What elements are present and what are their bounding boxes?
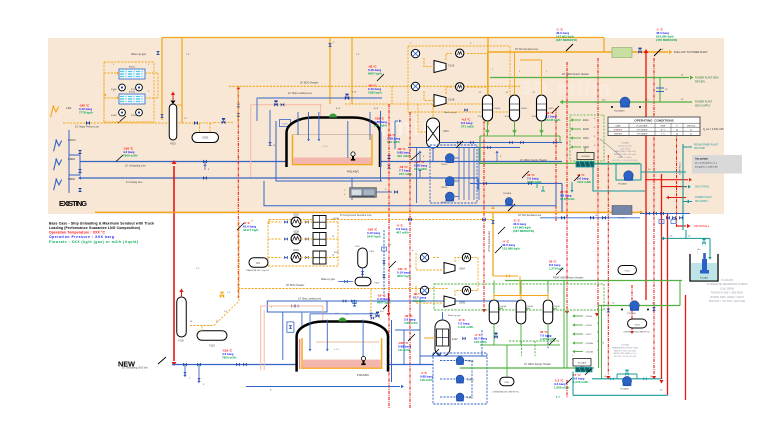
svg-text:RATED FLOW = 358 M3/H: RATED FLOW = 358 M3/H (711, 291, 743, 295)
svg-text:P103A: P103A (467, 360, 474, 363)
svg-text:377,748 A/H: 377,748 A/H (637, 128, 648, 131)
svg-text:20' BOG Header: 20' BOG Header (286, 284, 305, 287)
svg-text:SW OUTFALL: SW OUTFALL (695, 186, 710, 189)
svg-text:E10C: E10C (555, 306, 561, 308)
svg-text:VS05: VS05 (202, 137, 209, 140)
svg-text:4'x3: 4'x3 (380, 311, 383, 313)
svg-text:E001A/B: E001A/B (581, 155, 590, 158)
svg-text:POWER PLANT WEG: POWER PLANT WEG (695, 77, 719, 80)
svg-text:P105A/B: P105A/B (620, 388, 629, 391)
svg-text:10' WEG Supply Header: 10' WEG Supply Header (520, 159, 547, 162)
svg-text:1112 m3/h: 1112 m3/h (577, 180, 591, 184)
svg-text:(187 MMSCFD): (187 MMSCFD) (556, 38, 577, 42)
svg-text:VS03: VS03 (634, 324, 640, 326)
svg-text:P101A/B/C: P101A/B/C (357, 374, 370, 377)
svg-text:10' Vapor Return Line: 10' Vapor Return Line (75, 126, 100, 129)
svg-text:RATED DIFF. HEAD = 37 m: RATED DIFF. HEAD = 37 m (613, 352, 637, 355)
svg-text:467 m3/h: 467 m3/h (396, 231, 409, 235)
svg-text:LP2: LP2 (256, 263, 261, 265)
svg-text:P104A/B: P104A/B (700, 277, 709, 280)
svg-text:Make-up gas: Make-up gas (321, 278, 336, 281)
svg-text:V103: V103 (374, 283, 380, 285)
svg-text:RATED FLOW = 286 m3/h: RATED FLOW = 286 m3/h (614, 153, 636, 156)
svg-text:C04B: C04B (583, 147, 589, 149)
svg-text:Operation Pressure : XXX barg: Operation Pressure : XXX barg (49, 235, 114, 239)
svg-text:14'x8: 14'x8 (532, 116, 536, 118)
svg-text:E10B: E10B (528, 306, 534, 308)
svg-text:4'x3: 4'x3 (345, 314, 348, 316)
svg-text:Q_sw = 3,300 m3/h: Q_sw = 3,300 m3/h (703, 128, 724, 131)
svg-text:5 °C: 5 °C (661, 133, 665, 135)
svg-text:14' Ship Loading line: 14' Ship Loading line (298, 298, 322, 301)
svg-text:E01A: E01A (495, 107, 501, 110)
svg-text:E002a: E002a (129, 67, 136, 69)
svg-text:VS02: VS02 (624, 271, 630, 273)
svg-text:118 m3/h: 118 m3/h (420, 378, 433, 382)
svg-text:SW OUTFALL: SW OUTFALL (694, 225, 710, 228)
svg-text:20' WEG Return Header: 20' WEG Return Header (562, 73, 589, 76)
svg-text:C101dB: C101dB (585, 352, 593, 354)
svg-text:C04A: C04A (459, 268, 465, 271)
svg-text:SW PUMP: SW PUMP (694, 148, 705, 150)
svg-text:OPERATING CONDITIONS: OPERATING CONDITIONS (634, 119, 673, 123)
svg-text:P001c: P001c (441, 202, 448, 204)
svg-text:2'x1': 2'x1' (388, 244, 392, 246)
svg-text:1280 kg/h: 1280 kg/h (368, 91, 382, 95)
svg-text:34477 kg/h: 34477 kg/h (243, 228, 259, 232)
svg-text:MOTOR = 737 KW ( 1100 kW): MOTOR = 737 KW ( 1100 kW) (709, 299, 745, 303)
svg-text:HEAD TEMP = 286 m3/h: HEAD TEMP = 286 m3/h (615, 150, 636, 153)
svg-text:C02A: C02A (293, 214, 299, 217)
svg-text:F 001: F 001 (322, 146, 328, 148)
svg-text:E002b: E002b (129, 92, 136, 94)
svg-text:K005A: K005A (131, 88, 137, 91)
svg-text:F100: F100 (178, 340, 184, 343)
svg-text:100 K: 100 K (282, 124, 288, 126)
svg-text:FLOW RATE: FLOW RATE (637, 124, 649, 127)
svg-text:16' NG Sendout Line: 16' NG Sendout Line (488, 230, 491, 252)
svg-text:K004B: K004B (111, 115, 117, 117)
svg-text:E102: E102 (452, 338, 458, 341)
svg-text:E101A/B: E101A/B (578, 361, 587, 364)
svg-text:C101Ab: C101Ab (585, 342, 594, 345)
svg-text:7778 kg/h: 7778 kg/h (79, 111, 93, 115)
svg-text:C101B: C101B (585, 325, 592, 327)
svg-text:L102: L102 (66, 107, 72, 110)
svg-text:F102: F102 (209, 345, 215, 348)
svg-text:TEMP: TEMP (660, 125, 666, 127)
svg-text:1.5': 1.5' (186, 54, 190, 56)
svg-text:6' Cooling Line: 6' Cooling Line (126, 181, 143, 184)
svg-text:P006A/B: P006A/B (503, 192, 512, 195)
svg-text:111 m3/h: 111 m3/h (398, 348, 411, 352)
svg-text:Water up-gas: Water up-gas (131, 53, 147, 56)
svg-text:RATED DIFF. HEAD = 99 M: RATED DIFF. HEAD = 99 M (710, 295, 744, 299)
svg-text:1,046 m3/h: 1,046 m3/h (573, 380, 589, 384)
svg-text:10' WEG Supply Header: 10' WEG Supply Header (524, 363, 551, 366)
svg-text:4'x3': 4'x3' (374, 108, 379, 110)
svg-text:V101: V101 (369, 251, 375, 253)
svg-text:0.88 m3/h: 0.88 m3/h (404, 321, 418, 325)
svg-text:DEMINERALIZED WATER FILL: DEMINERALIZED WATER FILL (624, 331, 651, 334)
svg-text:C02C: C02C (293, 249, 299, 252)
svg-text:5447 kg/h: 5447 kg/h (367, 235, 381, 239)
svg-text:MOTOR = 1 35 kW ( 165 kW): MOTOR = 1 35 kW ( 165 kW) (613, 160, 638, 162)
svg-text:118 m3/h: 118 m3/h (413, 299, 426, 303)
svg-text:(2 @ 100%): (2 @ 100%) (720, 286, 734, 290)
svg-text:P-104A/B: P-104A/B (721, 278, 733, 282)
svg-text:FUEL GAS TO POWER PLANT: FUEL GAS TO POWER PLANT (674, 51, 708, 54)
svg-text:E03C: E03C (334, 252, 340, 254)
svg-text:P001a: P001a (441, 164, 448, 166)
svg-text:Aux pumps: Aux pumps (695, 158, 709, 161)
svg-text:Flowrate : XXX (kg/h (gas) or: Flowrate : XXX (kg/h (gas) or m3/h (liqu… (49, 240, 138, 244)
svg-text:7800 m3/h: 7800 m3/h (123, 154, 138, 158)
svg-text:C03A: C03A (443, 130, 449, 133)
svg-text:VS04: VS04 (504, 382, 510, 384)
svg-text:Despatch pumps: Despatch pumps (618, 144, 632, 147)
svg-text:E03A: E03A (334, 217, 340, 220)
svg-text:ALTERNATE SEAWATER PUMPS: ALTERNATE SEAWATER PUMPS (706, 282, 747, 286)
svg-text:Operation Temperature : XXX °C: Operation Temperature : XXX °C (49, 231, 106, 235)
svg-text:46: 46 (676, 133, 678, 135)
svg-text:7800 m3/h: 7800 m3/h (222, 356, 237, 360)
svg-text:10' Unloading Line: 10' Unloading Line (125, 165, 146, 168)
svg-text:F001A/B/C: F001A/B/C (347, 171, 359, 174)
svg-text:2D = 6 500 gal/min = 4.1: 2D = 6 500 gal/min = 4.1 (695, 163, 718, 165)
svg-text:118 m3/h: 118 m3/h (474, 340, 487, 344)
svg-text:E01C: E01C (549, 108, 555, 110)
svg-text:P103C: P103C (467, 398, 474, 400)
svg-text:Base Case - Ship Unloading & M: Base Case - Ship Unloading & Maximum Sen… (49, 222, 154, 226)
svg-text:P-006A/B: P-006A/B (621, 142, 630, 145)
svg-text:Make-up gas: Make-up gas (448, 315, 462, 317)
svg-text:41: 41 (690, 133, 692, 135)
svg-text:P004A/B: P004A/B (618, 183, 627, 186)
svg-text:HEAD = 1 200 m: HEAD = 1 200 m (618, 156, 633, 159)
svg-text:WEG SUPPLY: WEG SUPPLY (695, 105, 711, 108)
svg-text:60' SW Return: 60' SW Return (679, 162, 682, 175)
svg-text:DEMINERALIZED WATER FILL: DEMINERALIZED WATER FILL (493, 391, 520, 394)
svg-text:20' BOG Header: 20' BOG Header (300, 82, 319, 85)
svg-text:SW SUPPLY: SW SUPPLY (695, 201, 709, 203)
svg-text:1212 m3/h: 1212 m3/h (560, 197, 575, 201)
svg-text:FROM POWER PLANT: FROM POWER PLANT (694, 144, 719, 147)
svg-text:F-101: F-101 (334, 349, 340, 351)
svg-text:Make-up gas: Make-up gas (444, 112, 458, 114)
svg-text:12' Ship Loading Line: 12' Ship Loading Line (288, 92, 313, 95)
svg-text:1,066 m3/h: 1,066 m3/h (554, 386, 570, 390)
svg-text:PERF WEG Return Header: PERF WEG Return Header (553, 277, 584, 280)
svg-text:C101C: C101C (585, 334, 592, 336)
svg-text:4'x3': 4'x3' (336, 108, 341, 110)
svg-text:C04B: C04B (459, 302, 465, 305)
svg-text:246 m3/h: 246 m3/h (374, 124, 387, 128)
svg-text:16' NG Sendout Line: 16' NG Sendout Line (515, 48, 539, 51)
svg-text:133,086 kg/h: 133,086 kg/h (502, 247, 520, 251)
svg-text:20AN/202B F01 Cmp-#01: 20AN/202B F01 Cmp-#01 (246, 269, 270, 272)
svg-text:SUMMER: SUMMER (614, 129, 623, 131)
svg-text:4"x3": 4"x3" (352, 92, 357, 94)
svg-text:K005B: K005B (131, 115, 137, 117)
svg-text:271 m3/h: 271 m3/h (461, 125, 474, 129)
svg-text:6607 kg/h: 6607 kg/h (368, 72, 382, 76)
svg-text:E02B: E02B (583, 129, 589, 131)
svg-text:RETURN: RETURN (695, 81, 705, 84)
svg-text:377,748 A/H: 377,748 A/H (637, 132, 648, 135)
svg-text:POWER PLANT: POWER PLANT (695, 101, 713, 104)
svg-text:F010: F010 (170, 143, 176, 146)
svg-text:C04A: C04A (583, 137, 589, 140)
svg-text:18: 18 (273, 145, 275, 147)
svg-text:41: 41 (690, 129, 692, 131)
svg-text:WINTER: WINTER (614, 133, 622, 135)
svg-text:272 m3/h: 272 m3/h (414, 167, 427, 171)
svg-text:(476 MMSCFD): (476 MMSCFD) (656, 38, 677, 42)
svg-text:P102A/B: P102A/B (627, 312, 636, 315)
svg-text:C01B: C01B (448, 98, 455, 102)
svg-text:14'x: 14'x (697, 249, 700, 251)
svg-text:P-105(A): P-105(A) (621, 344, 629, 347)
svg-text:310 m3/h: 310 m3/h (397, 154, 410, 158)
svg-text:L.V.: L.V. (227, 292, 231, 294)
svg-text:14'x8: 14'x8 (505, 116, 509, 118)
svg-text:P103B: P103B (467, 380, 474, 382)
svg-text:6607 kg/h: 6607 kg/h (397, 274, 411, 278)
svg-text:Loading (Performance Guarantee: Loading (Performance Guarantee LNG Compo… (49, 226, 140, 230)
svg-text:E02A: E02A (583, 119, 589, 122)
svg-text:32 °C: 32 °C (661, 129, 666, 131)
svg-text:P002A/B/C: P002A/B/C (614, 110, 625, 113)
svg-text:1: 1 (697, 253, 698, 255)
svg-text:E10A: E10A (501, 305, 507, 308)
svg-text:MOTOR = 55 kW ( 75 kW): MOTOR = 55 kW ( 75 kW) (614, 356, 637, 358)
svg-text:13145 kg/h: 13145 kg/h (545, 118, 561, 122)
svg-text:E01B: E01B (522, 108, 528, 110)
svg-text:6607 kg/h: 6607 kg/h (377, 301, 391, 305)
svg-text:16' NG Sendout Line: 16' NG Sendout Line (518, 214, 542, 217)
svg-text:EXISTING: EXISTING (59, 199, 87, 208)
svg-text:RATED FLOW = 358 m3/h: RATED FLOW = 358 m3/h (614, 349, 636, 352)
svg-text:46: 46 (676, 129, 678, 131)
svg-text:SEAWATER BOOSTER PUMP: SEAWATER BOOSTER PUMP (612, 346, 639, 349)
svg-text:UNIT/Seq: UNIT/Seq (687, 125, 695, 127)
svg-text:1.5': 1.5' (356, 54, 360, 56)
svg-text:POWER PLANT: POWER PLANT (695, 196, 712, 199)
svg-text:CASE: CASE (615, 124, 621, 127)
svg-text:14'x8: 14'x8 (478, 116, 482, 118)
svg-text:C01A: C01A (448, 64, 455, 68)
svg-text:1,241 m3/h: 1,241 m3/h (458, 325, 474, 329)
svg-text:650 gal/min = 3,280 m3/h: 650 gal/min = 3,280 m3/h (695, 167, 718, 169)
svg-text:8' Compressor Sendout Line: 8' Compressor Sendout Line (340, 214, 372, 217)
svg-text:C02B: C02B (293, 231, 299, 234)
svg-text:1068 m3/h: 1068 m3/h (527, 180, 542, 184)
svg-text:P001b: P001b (441, 187, 448, 189)
svg-text:(1 @ 100%): (1 @ 100%) (620, 148, 630, 150)
svg-text:(187 MMSCFD): (187 MMSCFD) (513, 229, 534, 233)
svg-text:10' Unloading LNG line: 10' Unloading LNG line (122, 367, 148, 370)
svg-text:C101A: C101A (585, 315, 592, 318)
